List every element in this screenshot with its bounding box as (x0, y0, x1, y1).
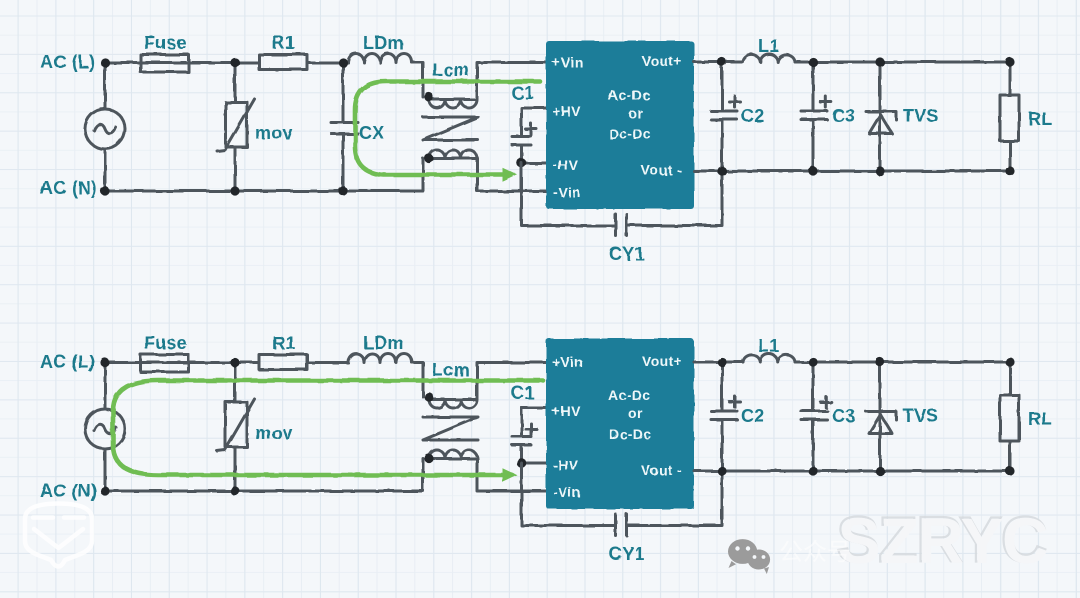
capacitor CX (331, 63, 358, 192)
capacitor C1 (512, 108, 546, 163)
svg-text:C1: C1 (511, 383, 534, 403)
svg-text:L1: L1 (758, 336, 779, 356)
junction node source/N rail (100, 186, 109, 195)
junction node CX top (338, 58, 347, 67)
svg-text:-Vin: -Vin (553, 484, 581, 500)
junction node TVS bottom 2 (875, 466, 884, 475)
svg-text:+HV: +HV (552, 403, 581, 419)
svg-text:Fuse: Fuse (144, 333, 187, 353)
junction node RL top (1005, 57, 1014, 66)
junction node RL bottom 2 (1005, 466, 1014, 475)
CIRCUIT 1 (top) (40, 33, 1052, 264)
svg-text:R1: R1 (272, 33, 295, 53)
junction node MOV bottom (230, 186, 239, 195)
svg-text:Ac-Dc: Ac-Dc (608, 387, 650, 403)
green differential-mode current path (355, 82, 540, 182)
varistor MOV 2 (217, 363, 255, 492)
svg-text:公众号: 公众号 (779, 539, 851, 566)
svg-text:C2: C2 (741, 406, 764, 426)
resistor RL 2 (1000, 362, 1019, 471)
svg-text:-Vin: -Vin (553, 184, 581, 200)
common-mode choke Lcm bottom winding (424, 150, 546, 191)
junction node MOV bottom 2 (230, 486, 239, 495)
junction node C3 bottom 2 (808, 466, 817, 475)
svg-text:+Vin: +Vin (552, 54, 583, 70)
svg-text:Fuse: Fuse (144, 33, 187, 53)
inductor L1 2 (743, 354, 795, 362)
svg-text:mov: mov (255, 423, 293, 443)
svg-text:Vout+: Vout+ (642, 53, 682, 69)
capacitor C2 2 (711, 362, 740, 471)
svg-text:AC (N): AC (N) (40, 178, 97, 198)
svg-text:Lcm: Lcm (432, 60, 470, 80)
wire Vout+ rail 2 (694, 361, 1010, 364)
watermark logo bottom-left (25, 504, 92, 567)
junction node RL top 2 (1005, 357, 1014, 366)
junction node RL bottom (1005, 166, 1014, 175)
svg-text:AC (L): AC (L) (40, 352, 95, 372)
wire: AC(L) top rail 2 (105, 363, 423, 398)
svg-text:Lcm: Lcm (432, 360, 470, 380)
junction node TVS top (875, 57, 884, 66)
svg-text:or: or (628, 405, 643, 421)
svg-text:+Vin: +Vin (552, 354, 583, 370)
watermarks (25, 504, 1048, 578)
converter body U1 (546, 41, 694, 209)
fuse Fuse 2 (141, 355, 189, 373)
junction node C2 top (717, 57, 726, 66)
capacitor CY1 2 (522, 463, 723, 536)
svg-text:C2: C2 (741, 106, 764, 126)
svg-text:SZRYC: SZRYC (838, 505, 1048, 577)
green common-mode current path (113, 381, 543, 483)
junction node MOV top (230, 58, 239, 67)
wire Vout- rail 2 (694, 470, 1010, 473)
svg-text:Vout -: Vout - (641, 462, 682, 478)
wire: AC(L) top rail (105, 63, 423, 98)
resistor R1 (259, 55, 307, 70)
converter block U2 (546, 339, 694, 510)
junction node source/L rail (100, 58, 109, 67)
junction node C2 bottom 2 (717, 466, 726, 475)
CIRCUIT 2 (bottom) (40, 333, 1052, 564)
capacitor C1 2 (512, 408, 546, 463)
junction node source/N rail 2 (100, 486, 109, 495)
svg-text:RL: RL (1028, 109, 1052, 129)
AC source V1 (85, 63, 125, 192)
diode TVS (866, 62, 896, 171)
svg-text:CY1: CY1 (609, 244, 645, 264)
svg-text:Dc-Dc: Dc-Dc (609, 426, 651, 442)
svg-text:C1: C1 (511, 83, 534, 103)
junction node C3 top (808, 57, 817, 66)
junction node C3 bottom (808, 166, 817, 175)
capacitor C3 (801, 62, 831, 171)
svg-text:TVS: TVS (903, 106, 939, 126)
junction node source/L rail 2 (100, 358, 109, 367)
svg-text:AC (L): AC (L) (40, 52, 95, 72)
svg-text:LDm: LDm (363, 333, 404, 353)
svg-text:R1: R1 (272, 333, 295, 353)
junction node C3 top 2 (808, 357, 817, 366)
inductor LDm (348, 54, 412, 63)
wire Vout+ rail (694, 61, 1010, 64)
inductor L1 (743, 54, 795, 62)
junction node C2 bottom (717, 166, 726, 175)
svg-text:Vout+: Vout+ (642, 353, 682, 369)
resistor RL (1000, 62, 1019, 171)
choke core (423, 117, 478, 140)
inductor LDm 2 (348, 354, 412, 363)
converter block U1 (546, 41, 694, 209)
resistor R1 2 (259, 355, 307, 370)
junction node CX bottom (338, 186, 347, 195)
wire: AC(N) bottom rail (105, 159, 423, 192)
svg-text:-HV: -HV (553, 157, 579, 173)
svg-text:RL: RL (1028, 409, 1052, 429)
common-mode choke Lcm top winding (424, 63, 546, 109)
wechat icon (728, 539, 770, 574)
svg-text:AC (N): AC (N) (40, 481, 97, 501)
choke core 2 (423, 417, 478, 440)
fuse Fuse (141, 55, 189, 73)
svg-text:LDm: LDm (363, 33, 404, 53)
svg-text:C3: C3 (832, 406, 855, 426)
diode TVS 2 (866, 362, 896, 471)
svg-text:mov: mov (255, 123, 293, 143)
node -HV (517, 158, 546, 168)
junction node C2 top 2 (717, 357, 726, 366)
svg-text:+HV: +HV (552, 103, 581, 119)
svg-text:Vout -: Vout - (641, 162, 682, 178)
capacitor C3 2 (801, 362, 831, 471)
node -HV 2 (517, 458, 546, 468)
wire Vout- rail (694, 170, 1010, 173)
svg-text:or: or (628, 105, 643, 121)
junction node TVS bottom (875, 166, 884, 175)
svg-text:Ac-Dc: Ac-Dc (608, 87, 650, 103)
common-mode choke Lcm bottom winding 2 (424, 450, 546, 491)
svg-text:Dc-Dc: Dc-Dc (609, 126, 651, 142)
varistor MOV (217, 63, 255, 192)
svg-text:CY1: CY1 (609, 544, 645, 564)
svg-text:CX: CX (359, 123, 384, 143)
capacitor C2 (711, 62, 740, 171)
wire: AC(N) bottom rail 2 (105, 459, 423, 492)
svg-text:-HV: -HV (553, 457, 579, 473)
svg-text:L1: L1 (758, 36, 779, 56)
AC source V2 (85, 363, 125, 492)
junction node TVS top 2 (875, 357, 884, 366)
capacitor CY1 (522, 163, 723, 236)
converter body U2 (546, 339, 694, 510)
svg-text:C3: C3 (832, 106, 855, 126)
common-mode choke Lcm top winding 2 (424, 363, 546, 409)
svg-text:TVS: TVS (903, 406, 939, 426)
junction node MOV top 2 (230, 358, 239, 367)
